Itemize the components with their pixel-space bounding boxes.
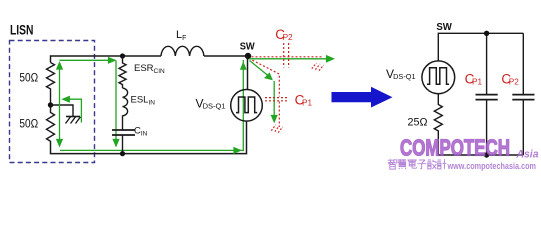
svg-text:P1: P1 — [472, 77, 482, 86]
svg-text:P2: P2 — [509, 77, 519, 86]
source V_DS-Q1 right — [386, 61, 455, 94]
inductor ESL_IN — [123, 88, 156, 116]
svg-text:Asia: Asia — [516, 148, 539, 160]
svg-text:LF: LF — [176, 29, 186, 42]
svg-text:25Ω: 25Ω — [408, 117, 428, 129]
wire current path green CIN vertical down — [112, 60, 119, 147]
svg-text:P2: P2 — [283, 33, 293, 42]
resistor 25ohm — [408, 94, 443, 155]
node junction between R1 and R2 — [48, 102, 53, 107]
wire bottom rail — [51, 121, 247, 154]
capacitor C_P1 parasitic red dashed — [252, 60, 312, 127]
wire current path green ground to junction arrow — [61, 96, 81, 123]
resistor R2 50ohm — [19, 105, 54, 142]
wire current path green SW up arrow through source — [242, 60, 244, 67]
svg-text:SW: SW — [240, 41, 255, 53]
LISN enclosure dashed box — [10, 41, 95, 163]
svg-text:50Ω: 50Ω — [19, 73, 38, 85]
source V_DS-Q1 left — [196, 90, 263, 122]
svg-text:ESLIN: ESLIN — [131, 95, 156, 107]
wire current path green SW diagonal to C_P1 — [250, 61, 278, 124]
wire junction to LISN ground — [51, 105, 74, 117]
capacitor C_IN — [112, 116, 148, 154]
svg-text:SW: SW — [436, 21, 452, 33]
svg-text:P1: P1 — [302, 98, 312, 107]
logo COMPOTECH Asia watermark — [388, 134, 539, 172]
ground chassis red hatch bottom — [271, 125, 282, 133]
ground chassis red hatch right — [312, 63, 324, 71]
LISN label — [10, 22, 34, 37]
svg-text:CIN: CIN — [134, 126, 148, 138]
wire SW to source — [247, 56, 249, 90]
capacitor C_P2 right — [501, 33, 534, 155]
wire current path green SW to right arrow — [249, 55, 335, 63]
node right rail junctions — [484, 31, 489, 158]
node CIN top junction — [120, 53, 125, 58]
wire current path green LISN vertical — [56, 61, 63, 148]
wire current path green bottom horizontal to SW branch — [60, 62, 247, 155]
wire top rail — [51, 56, 249, 63]
svg-text:DS-Q1: DS-Q1 — [203, 104, 226, 111]
node SW right — [436, 21, 452, 33]
wire current path green LISN to CIN horizontal — [60, 57, 117, 64]
wire right circuit bottom rail — [438, 154, 523, 156]
wire right circuit top rail — [438, 33, 523, 61]
svg-text:COMPOTECH: COMPOTECH — [400, 134, 510, 160]
svg-text:DS-Q1: DS-Q1 — [393, 74, 416, 81]
svg-text:ESRCIN: ESRCIN — [134, 63, 165, 75]
resistor R1 50ohm — [19, 63, 54, 106]
svg-text:LISN: LISN — [10, 22, 34, 37]
inductor L_F — [161, 29, 204, 56]
ground LISN chassis — [66, 117, 81, 124]
node CIN bottom junction — [120, 151, 125, 156]
svg-text:50Ω: 50Ω — [19, 119, 38, 131]
capacitor C_P2 parasitic red dashed — [252, 27, 323, 68]
resistor ESR_CIN — [119, 56, 165, 88]
capacitor C_P1 right — [465, 33, 498, 155]
node SW left — [240, 41, 255, 60]
svg-text:www.compotechasia.com: www.compotechasia.com — [447, 161, 536, 172]
blue arrow — [332, 87, 393, 108]
